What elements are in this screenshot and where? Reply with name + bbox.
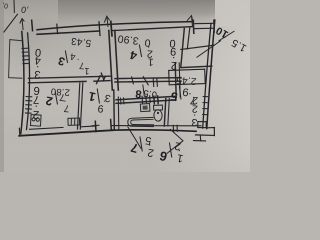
wall room3 bottom lower line [29,81,87,82]
door step mark bottom right [194,140,206,142]
wire right wall outer [207,20,215,129]
balcony left rectangle [9,40,23,79]
wall room3 right pair [109,31,113,91]
wall wc divider pair [164,99,166,127]
wire bottom wall inner left [30,127,64,129]
label room1 1/9.3 [87,89,111,116]
ticks on room3 bottom wall [96,73,105,85]
dark marks wc top [154,95,158,104]
window room3 left (in wall) [22,48,29,64]
sink box bathroom [140,104,150,112]
vent arrow top right [187,16,193,27]
text 2.90 vertical [168,37,179,72]
label room7 7/2.5 [129,134,156,159]
wall room5 top [181,66,212,68]
paper background [0,0,250,172]
vent arrow top middle [104,16,109,27]
wire left wall outer [21,32,24,134]
label room2 2/7.7 [44,91,71,114]
wire top wall inner right segment [112,27,193,31]
edge mark top left [13,0,15,13]
wall room4 right pair [181,29,185,68]
wall bath right pair [175,63,176,97]
leader line to 6 label [167,129,183,154]
balcony10 window top right [193,20,214,33]
door rect bottom right [198,122,207,128]
entrance door top left: swing line [4,14,18,33]
wall bathroom top lower [116,100,176,104]
toilet [154,105,163,121]
wire top wall outer [37,22,193,30]
text 3.22 vertical [190,94,199,128]
window room5 right (in wall) [202,97,208,115]
ticks on room4 bottom wall [132,76,158,87]
label room10 10/1.5 [214,24,249,54]
label room4 4/12.0 [128,36,155,68]
wall room4 bottom lower [115,80,181,83]
label room3 3/17.4 [57,50,91,76]
wire bottom wall inner right [112,125,201,127]
stove box kitchen [31,115,42,127]
vent box hall wall [68,118,80,125]
node right wall bottom step [208,127,215,129]
window room2 left (in wall) [25,97,32,114]
label room8 8/0.5 [135,85,158,100]
leader line to 7 label [128,127,142,149]
wire bottom wall outer right [113,130,196,132]
entrance jamb bars bottom [92,119,112,133]
svg-text:0.5: 0.5 [143,87,158,100]
label room5 5/7.9 [169,85,197,106]
text 3.40 vertical [33,46,42,80]
wall room4 bottom upper [115,78,181,79]
bathtub [128,117,154,126]
wire bottom wall inner left2 [81,125,96,128]
hatch ticks on bathroom top wall left [121,97,125,104]
label room6 6/1.2 [158,139,186,164]
node bottom left stub [18,128,21,136]
wire bottom wall outer left [19,130,113,136]
wall room1-room2 pair [78,83,80,129]
entrance door arrow [20,19,25,30]
node bottom right end stub [213,128,215,136]
wall balcony mid horizontal [181,45,214,49]
node top wall tick x57 [56,24,59,33]
svg-text:2.45: 2.45 [176,74,197,86]
node top wall jamb A [99,22,100,36]
text 2.76 vertical [31,84,41,120]
wire top wall inner left segment [37,31,99,34]
wall bathroom left pair [113,90,116,129]
wall bathroom top upper [116,96,176,100]
wire bottom right corner piece [196,134,215,137]
wall room3 bottom upper line [29,76,111,78]
svg-text:3.90: 3.90 [117,32,140,47]
wire left wall inner [27,33,30,130]
node top wall jamb B [111,21,112,35]
wire right wall inner [203,24,211,129]
entrance jamb bar [31,20,34,32]
junction bars bottom near bath wall [173,125,177,132]
box 2.45 [169,69,206,85]
hatch ticks on bathroom top wall [142,95,150,103]
leader line to 10 label [197,41,222,58]
